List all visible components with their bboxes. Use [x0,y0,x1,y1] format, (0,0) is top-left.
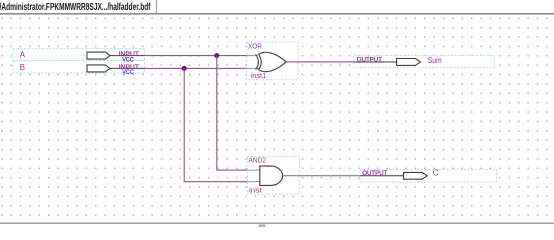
tab bar [0,0,554,14]
input pin B symbol [87,64,145,76]
input pin B selection box [13,61,144,73]
output pin C symbol [360,170,427,179]
svg-text:/Administrator.FPKMMWRR8SJX...: /Administrator.FPKMMWRR8SJX.../halfadder… [0,2,151,13]
svg-text:inst1: inst1 [251,73,267,80]
and body [260,166,283,185]
wire: XOR output to Sum pin (net Sum) [286,61,354,63]
wire: node B drop to AND2 lower input [184,68,248,181]
wire: AND2 output to C pin (net C) [283,175,360,177]
tab bar bottom border [0,13,554,15]
XOR gate inst1 symbol [247,52,286,71]
svg-text:inst: inst [249,188,262,195]
scrollbar nub [259,224,266,227]
input stubs [247,55,258,57]
junction dot on wire B [182,66,187,71]
AND2 gate inst selection box [247,157,299,195]
XOR gate inst1 selection box [247,42,298,80]
junction dot on wire A [214,53,219,58]
svg-text:A: A [20,50,26,59]
svg-text:VCC: VCC [122,69,134,76]
svg-text:VCC: VCC [122,56,134,63]
svg-text:Sum: Sum [428,56,442,65]
svg-text:OUTPUT: OUTPUT [362,170,387,177]
input pin A symbol [87,51,145,63]
wire: node A drop to AND2 upper input [217,56,248,171]
xor body [259,52,287,71]
wire B horizontal [145,67,251,69]
input pin A selection box [13,49,144,61]
svg-text:C: C [433,168,439,177]
svg-text:B: B [20,63,25,72]
input stubs [248,169,260,171]
output pin Sum symbol [354,56,421,65]
svg-text:OUTPUT: OUTPUT [357,56,382,63]
svg-text:XOR: XOR [248,44,262,51]
svg-text:AND2: AND2 [249,158,267,165]
window bottom border [0,222,554,224]
AND2 gate inst symbol [248,166,283,185]
output pin C selection box [360,169,497,182]
xor back arc [256,54,259,69]
tab separator [156,0,158,13]
wire A horizontal [145,55,251,57]
output pin Sum selection box [354,56,495,68]
